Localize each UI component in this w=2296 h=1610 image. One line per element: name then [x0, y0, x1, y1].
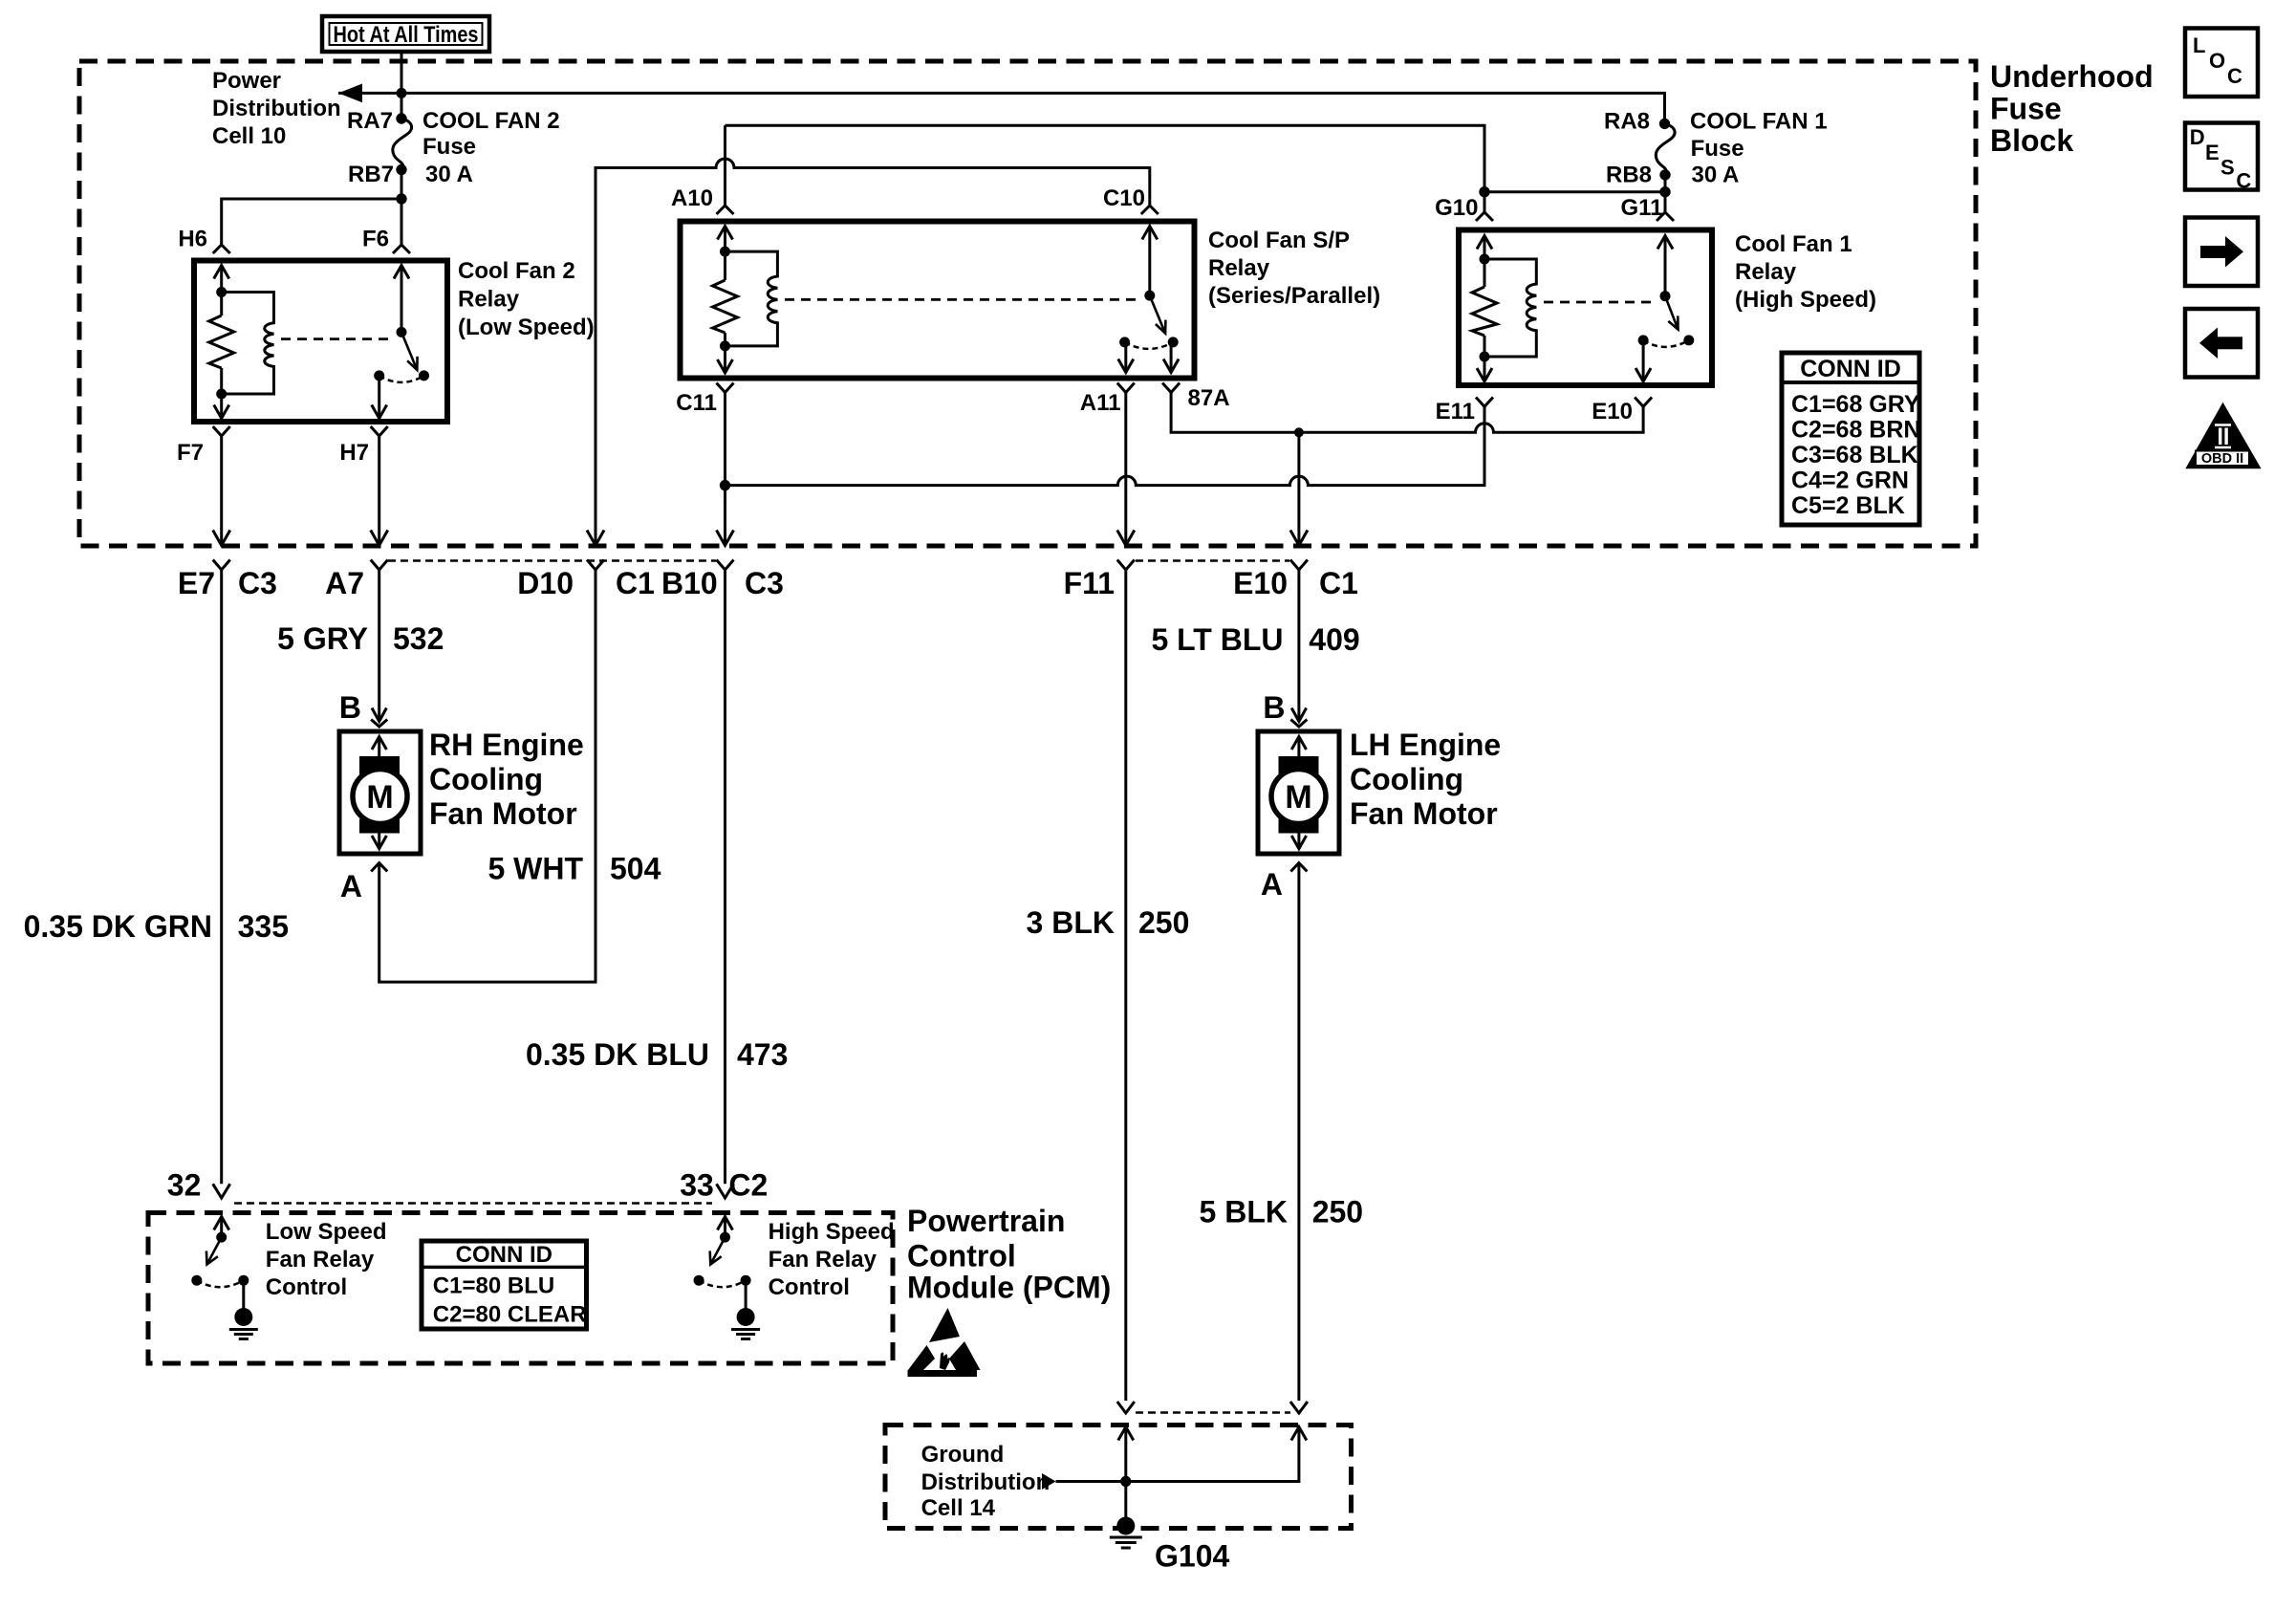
svg-text:Distribution: Distribution	[921, 1469, 1051, 1495]
switch throw arc (dashed) K3	[1125, 342, 1174, 349]
switch throw arc (dashed) K2	[379, 376, 424, 382]
svg-text:Fan Motor: Fan Motor	[1350, 796, 1498, 831]
connector chevron E10/C1 at ground cell	[1290, 1402, 1308, 1413]
svg-text:F11: F11	[1064, 566, 1115, 600]
svg-text:CONN ID: CONN ID	[1800, 356, 1901, 382]
terminal A10	[671, 185, 734, 214]
pin C1 (right)	[1319, 566, 1358, 600]
terminal A11	[1080, 383, 1135, 417]
node RB8	[1606, 163, 1671, 188]
svg-text:COOL FAN 1: COOL FAN 1	[1690, 109, 1828, 135]
CONN ID table (fuse block connectors)	[1782, 353, 1920, 525]
wire: line feeding A10 (from G10 node)	[726, 125, 1485, 192]
junction: G10 tap	[1479, 186, 1489, 197]
connector chevron F11 at ground cell	[1117, 1402, 1135, 1413]
switch contact K3 right (87A)	[1168, 337, 1179, 347]
terminal B (RH motor)	[339, 690, 387, 727]
terminal 87A	[1162, 383, 1229, 412]
wire: A10 drop	[724, 125, 726, 206]
label: 0.35 DK GRN | 335	[24, 909, 289, 944]
arrow out of relay K3 at 87A	[1163, 359, 1179, 373]
junction: LH fan feed tap	[1294, 427, 1304, 437]
node RA7	[347, 108, 407, 134]
pin E7	[178, 566, 215, 600]
svg-text:Powertrain: Powertrain	[907, 1204, 1065, 1238]
ground G104 symbol	[1110, 1517, 1230, 1574]
switch contact high speed right	[741, 1275, 751, 1286]
coil winding of K3	[726, 251, 778, 346]
svg-text:G11: G11	[1620, 195, 1662, 221]
relay K1 Cool Fan 1 Relay box	[1459, 230, 1712, 386]
svg-text:Fan Relay: Fan Relay	[266, 1247, 375, 1273]
wire: high speed contact to ground	[745, 1280, 747, 1309]
svg-text:C11: C11	[676, 390, 717, 416]
svg-text:RA7: RA7	[347, 108, 393, 134]
pin A7	[325, 566, 364, 600]
connector chevron below edge x=1358.9	[1290, 560, 1308, 571]
svg-text:532: 532	[393, 621, 444, 656]
junction: G11 tap	[1659, 186, 1670, 197]
wire: K3 right contact to 87A	[1170, 342, 1173, 373]
switch arm PCM low speed driver	[206, 1237, 222, 1264]
label: 5 WHT | 504	[487, 852, 661, 886]
svg-text:Distribution: Distribution	[212, 96, 341, 121]
coil winding of K1	[1484, 259, 1536, 357]
svg-text:M: M	[366, 779, 393, 816]
arrow out of relay K2 at H7	[372, 405, 387, 419]
wire: 87A to relay1 E10 terminal	[1171, 393, 1643, 433]
wire: K1 coil branch upper	[1484, 236, 1486, 288]
arrow into ground cell at F11 wire	[1118, 1427, 1134, 1441]
switch contact K1 right	[1683, 335, 1694, 345]
wire: A11 down through block edge	[1124, 393, 1127, 546]
terminal F6	[362, 227, 410, 254]
switch contact low speed left	[191, 1275, 202, 1286]
arrow into PCM at 33	[718, 1217, 733, 1230]
mechanical link (dashed) in K3	[785, 298, 1140, 301]
svg-text:5 GRY: 5 GRY	[277, 621, 368, 656]
ground symbol (PCM high speed)	[731, 1308, 760, 1339]
label: High Speed Fan Relay Control	[769, 1219, 895, 1300]
connector C1 dashed link (F11-E10)	[1136, 559, 1289, 562]
svg-text:C3=68 BLK: C3=68 BLK	[1791, 442, 1918, 468]
label: Low Speed Fan Relay Control	[266, 1219, 387, 1300]
svg-text:87A: 87A	[1188, 385, 1230, 411]
wire: K1 switch common	[1664, 236, 1667, 296]
svg-text:C1=80 BLU: C1=80 BLU	[433, 1273, 554, 1299]
terminal A (RH motor)	[340, 863, 387, 904]
terminal E10	[1592, 398, 1652, 425]
svg-text:RB7: RB7	[348, 162, 394, 187]
pin C3 (second)	[745, 566, 784, 600]
wire: C11 down through block edge	[724, 393, 726, 546]
switch contact low speed right	[238, 1275, 249, 1286]
switch throw arc (dashed) K1	[1643, 340, 1689, 347]
wire 250 5 BLK: LH motor A to ground cell	[1297, 863, 1300, 1402]
switch contact high speed left	[694, 1275, 704, 1286]
svg-text:Ground: Ground	[921, 1442, 1005, 1468]
connector C2 dashed link (32-33)	[234, 1202, 712, 1205]
switch throw arc (dashed) low speed	[197, 1280, 244, 1287]
wire: F7 down to fuse block edge	[220, 436, 223, 546]
switch arm in K2	[401, 332, 418, 370]
wire: D10 to C10 line with hop over A10 wire	[596, 159, 1150, 546]
connector C1 dashed link (A7-D10-B10)	[388, 559, 716, 562]
arrow at fuse block edge x=1177.8	[1117, 531, 1135, 546]
connector chevron below edge x=758.5	[717, 560, 734, 571]
svg-text:Hot At All Times: Hot At All Times	[334, 22, 479, 48]
wire: low speed contact to ground	[242, 1280, 245, 1309]
svg-text:RA8: RA8	[1604, 109, 1650, 135]
svg-text:C3: C3	[238, 566, 277, 600]
svg-text:Relay: Relay	[1735, 259, 1797, 285]
svg-text:B: B	[339, 690, 361, 725]
wire 504 5 WHT: RH motor A loop to D10	[379, 570, 596, 982]
connector chevron below edge x=231.7	[213, 560, 230, 571]
arrow at fuse block edge x=1358.9	[1290, 531, 1308, 546]
svg-text:Cooling: Cooling	[1350, 762, 1463, 796]
fuse COOL FAN 1 30A (squiggle)	[1656, 123, 1675, 174]
junction: ground tie	[1120, 1476, 1131, 1487]
svg-text:250: 250	[1312, 1195, 1363, 1229]
arrow into PCM at 32	[214, 1217, 229, 1230]
pin 32	[167, 1168, 202, 1203]
arrow out of relay K1 at E10	[1635, 368, 1651, 381]
wire: RB8 to G11	[1664, 175, 1667, 212]
wire: crossover to G10	[1484, 190, 1665, 193]
switch arm in K3	[1150, 295, 1166, 334]
wire: PCM 32 switch common	[220, 1217, 223, 1238]
svg-text:C1=68 GRY: C1=68 GRY	[1791, 391, 1920, 418]
label: COOL FAN 1 Fuse 30 A	[1690, 109, 1828, 188]
svg-text:0.35 DK GRN: 0.35 DK GRN	[24, 909, 212, 944]
svg-text:A10: A10	[671, 185, 713, 211]
svg-text:D: D	[2190, 125, 2205, 149]
svg-text:RB8: RB8	[1606, 163, 1652, 188]
svg-text:B: B	[1263, 690, 1285, 725]
svg-text:Block: Block	[1990, 123, 2073, 158]
mechanical link (dashed) in K2	[281, 337, 394, 340]
svg-text:Fuse: Fuse	[1990, 92, 2062, 126]
svg-text:Low Speed: Low Speed	[266, 1219, 387, 1245]
svg-text:F6: F6	[362, 227, 389, 252]
wire 409 5 LT BLU: E10/C1 to LH motor B	[1297, 570, 1300, 722]
junction: K1 coil bottom	[1480, 352, 1490, 362]
svg-text:RH Engine: RH Engine	[429, 728, 584, 762]
label: COOL FAN 2 Fuse 30 A	[422, 108, 560, 187]
wire: K2 coil branch lower	[220, 368, 223, 419]
svg-text:(Low Speed): (Low Speed)	[458, 315, 595, 340]
terminal C10	[1103, 185, 1159, 214]
Hot At All Times box	[322, 16, 489, 52]
ESD sensitive device symbol	[908, 1308, 981, 1377]
svg-text:High Speed: High Speed	[769, 1219, 895, 1245]
coil winding of K2	[222, 293, 274, 395]
svg-text:A11: A11	[1080, 390, 1121, 416]
arrow into relay K2 at H6	[214, 266, 229, 279]
svg-text:473: 473	[737, 1037, 788, 1072]
wire: K3 left contact to A11	[1124, 342, 1127, 373]
svg-text:30 A: 30 A	[1692, 163, 1740, 188]
svg-text:M: M	[1285, 779, 1311, 816]
terminal H6	[178, 227, 229, 254]
pin E10 (bottom)	[1233, 566, 1288, 600]
svg-text:CONN ID: CONN ID	[456, 1242, 552, 1268]
svg-text:C4=2 GRN: C4=2 GRN	[1791, 468, 1909, 494]
wire: K2 switch common	[401, 266, 403, 333]
svg-text:335: 335	[238, 909, 289, 944]
arrow out of relay K2 at F7	[214, 405, 229, 419]
svg-text:C3: C3	[745, 566, 784, 600]
pin C1	[616, 566, 655, 600]
connector chevron below edge x=396.7	[371, 560, 388, 571]
junction: K2 coil top	[216, 287, 227, 297]
svg-text:30 A: 30 A	[425, 162, 473, 187]
label: Cool Fan 2 Relay (Low Speed)	[458, 258, 595, 340]
switch contact K2 left	[374, 370, 384, 381]
label: 3 BLK | 250	[1027, 905, 1190, 940]
switch pivot in K2	[397, 327, 407, 337]
svg-text:409: 409	[1309, 622, 1359, 657]
svg-text:Relay: Relay	[458, 287, 520, 313]
arrow into ground cell at E10 wire	[1291, 1427, 1307, 1441]
wire: E11 to C11 junction (hops over A11 and E10 wires)	[726, 406, 1485, 485]
svg-text:504: 504	[610, 852, 661, 886]
label: Power Distribution Cell 10	[212, 68, 341, 149]
wire: K2 coil branch upper	[220, 266, 223, 316]
label: Cool Fan S/P Relay (Series/Parallel)	[1208, 228, 1380, 309]
resistor in K3	[713, 280, 738, 333]
terminal B (LH motor)	[1263, 690, 1307, 727]
svg-text:Fuse: Fuse	[422, 134, 476, 160]
svg-text:Cool Fan S/P: Cool Fan S/P	[1208, 228, 1350, 253]
label: Ground Distribution Cell 14	[921, 1442, 1051, 1521]
arrow at fuse block edge x=231.7	[213, 531, 230, 546]
junction: K1 coil top	[1480, 254, 1490, 265]
svg-text:Control: Control	[907, 1239, 1016, 1273]
svg-text:E10: E10	[1592, 399, 1633, 424]
resistor in K2	[209, 315, 234, 368]
svg-text:D10: D10	[517, 566, 574, 600]
wire 250 3 BLK: F11 to ground cell	[1124, 570, 1127, 1401]
svg-text:C2=68 BRN: C2=68 BRN	[1791, 417, 1920, 444]
svg-text:COOL FAN 2: COOL FAN 2	[422, 108, 560, 134]
connector chevron below edge x=1177.8	[1117, 560, 1135, 571]
relay K3 Cool Fan S/P Relay box	[681, 222, 1195, 379]
switch pivot in K3	[1144, 291, 1155, 301]
connector chevron PCM 32	[213, 1184, 230, 1198]
switch pivot PCM low speed	[216, 1232, 227, 1243]
label: LH Engine Cooling Fan Motor	[1350, 728, 1501, 831]
pin 33 / C2	[680, 1168, 768, 1203]
svg-text:Underhood: Underhood	[1990, 59, 2154, 94]
svg-text:E10: E10	[1233, 566, 1288, 600]
terminal G11	[1620, 195, 1674, 221]
switch contact K3 left (A11)	[1119, 337, 1130, 347]
wire: K3 switch common	[1148, 227, 1151, 296]
wire: E10 to ground junction	[1056, 1427, 1299, 1482]
wire 473 0.35 DK BLU: B10 to PCM 33	[724, 570, 726, 1184]
label: 5 LT BLU | 409	[1151, 622, 1359, 657]
switch contact K1 left (E10)	[1638, 335, 1649, 345]
CONN ID table (PCM connectors)	[422, 1241, 587, 1329]
wire: K2 switch output to H7	[378, 376, 380, 419]
connector chevron PCM 33	[717, 1184, 734, 1198]
svg-text:Fuse: Fuse	[1691, 136, 1744, 162]
back arrow icon	[2185, 309, 2258, 378]
svg-text:LH Engine: LH Engine	[1350, 728, 1501, 762]
terminal E11	[1436, 398, 1493, 425]
svg-text:Control: Control	[769, 1274, 850, 1300]
svg-text:(Series/Parallel): (Series/Parallel)	[1208, 283, 1380, 309]
switch pivot in K1	[1660, 291, 1671, 301]
svg-text:C: C	[2227, 64, 2242, 88]
svg-text:OBD II: OBD II	[2201, 451, 2243, 467]
switch arm PCM high speed driver	[710, 1237, 726, 1264]
resistor in K1	[1472, 287, 1497, 336]
arrow into relay K3 at A10	[718, 227, 733, 240]
svg-text:Fan Relay: Fan Relay	[769, 1247, 877, 1273]
svg-text:B10: B10	[661, 566, 718, 600]
svg-text:C: C	[2236, 168, 2251, 192]
wire: PCM 33 switch common	[724, 1217, 726, 1238]
label: Cool Fan 1 Relay (High Speed)	[1735, 231, 1876, 313]
wire: hot feed from Hot At All Times down to F6	[401, 52, 403, 245]
ground symbol (PCM low speed)	[229, 1308, 258, 1339]
wire 532 5 GRY: A7 to RH motor B	[378, 570, 380, 722]
arrowhead: to Power Distribution Cell 10	[338, 84, 362, 103]
svg-text:C1: C1	[1319, 566, 1358, 600]
svg-text:Cooling: Cooling	[429, 762, 543, 796]
switch pivot PCM high speed	[720, 1232, 730, 1243]
svg-text:C2: C2	[728, 1168, 768, 1203]
wire: H7 down to fuse block edge	[378, 436, 380, 546]
junction: C11 / E11 / PCM33 node	[720, 480, 730, 490]
svg-text:C2=80 CLEAR: C2=80 CLEAR	[433, 1302, 587, 1328]
Powertrain Control Module (PCM) dashed box	[148, 1213, 893, 1364]
junction: K2 coil bottom	[216, 389, 227, 400]
wire 335 0.35 DK GRN: E7 to PCM 32	[220, 570, 223, 1184]
svg-text:Module (PCM): Module (PCM)	[907, 1271, 1111, 1305]
svg-text:Cool Fan 2: Cool Fan 2	[458, 258, 575, 284]
motor M RH Engine Cooling Fan Motor	[339, 731, 421, 854]
label: 5 BLK | 250	[1200, 1195, 1364, 1229]
fuse COOL FAN 2 30A (squiggle)	[393, 119, 412, 169]
svg-text:C1: C1	[616, 566, 655, 600]
svg-text:Power: Power	[212, 68, 281, 94]
motor M LH Engine Cooling Fan Motor	[1258, 731, 1339, 854]
svg-text:A: A	[1261, 867, 1283, 902]
arrow into relay K1 at G11	[1657, 236, 1673, 250]
terminal G10	[1435, 195, 1493, 221]
svg-text:S: S	[2220, 156, 2235, 180]
label: 0.35 DK BLU | 473	[526, 1037, 788, 1072]
svg-text:0.35 DK BLU: 0.35 DK BLU	[526, 1037, 709, 1072]
pin C3	[238, 566, 277, 600]
DESC reference icon	[2185, 123, 2258, 193]
node RB7	[348, 162, 407, 187]
terminal A (LH motor)	[1261, 863, 1308, 903]
switch arm in K1	[1665, 296, 1679, 330]
OBD II icon	[2185, 402, 2261, 469]
svg-text:32: 32	[167, 1168, 202, 1203]
terminal H7	[339, 426, 387, 466]
arrow at fuse block edge x=623	[587, 531, 604, 546]
wire: G10 drop	[1484, 192, 1486, 212]
svg-text:3 BLK: 3 BLK	[1027, 905, 1115, 940]
svg-text:O: O	[2209, 49, 2225, 73]
svg-text:E11: E11	[1436, 399, 1475, 424]
arrow out of relay K1 at E11	[1477, 368, 1492, 381]
wire: K3 coil branch upper	[724, 227, 726, 281]
svg-text:Relay: Relay	[1208, 255, 1270, 281]
arrow at fuse block edge x=758.5	[717, 531, 734, 546]
svg-text:H7: H7	[339, 440, 369, 466]
wire: K1 coil branch lower	[1484, 336, 1486, 381]
forward arrow icon	[2185, 218, 2258, 287]
terminal C11	[676, 383, 733, 417]
svg-text:Control: Control	[266, 1274, 347, 1300]
ground distribution reference arrow	[1042, 1473, 1056, 1490]
arrow out of relay K3 at C11	[718, 359, 733, 373]
label: Powertrain Control Module (PCM)	[907, 1204, 1111, 1305]
junction: RB7 output to H6/F6	[396, 193, 406, 204]
arrow out of relay K3 at A11	[1118, 359, 1134, 373]
connector chevron below edge x=623	[587, 560, 604, 571]
label: Underhood Fuse Block	[1990, 59, 2154, 158]
label: 5 GRY | 532	[277, 621, 444, 656]
relay K2 Cool Fan 2 Relay box	[194, 261, 447, 423]
arrow at fuse block edge x=396.7	[371, 531, 388, 546]
svg-text:H6: H6	[178, 227, 207, 252]
svg-text:5 LT BLU: 5 LT BLU	[1151, 622, 1283, 657]
svg-text:E7: E7	[178, 566, 215, 600]
svg-text:Fan Motor: Fan Motor	[429, 796, 577, 831]
svg-text:Cool Fan 1: Cool Fan 1	[1735, 231, 1852, 257]
svg-text:F7: F7	[177, 440, 204, 466]
wire: LH fan feed drop (E10/C1)	[1297, 432, 1300, 545]
svg-text:L: L	[2193, 33, 2205, 57]
junction: K3 coil bottom	[720, 340, 730, 351]
wire: K1 switch output to E10	[1642, 340, 1645, 381]
svg-text:Cell 14: Cell 14	[921, 1495, 996, 1521]
wire: power distribution arrow line to RA8	[338, 93, 1665, 123]
junction: K3 coil top	[720, 247, 730, 257]
arrow into relay K3 at C10	[1142, 227, 1158, 240]
switch throw arc (dashed) high speed	[699, 1280, 746, 1287]
svg-text:(High Speed): (High Speed)	[1735, 287, 1876, 313]
pin F11	[1064, 566, 1115, 600]
arrow into relay K1 at G10	[1477, 236, 1492, 250]
svg-text:250: 250	[1138, 905, 1189, 940]
wire: K3 coil branch lower	[724, 333, 726, 373]
pin B10	[661, 566, 718, 600]
terminal F7	[177, 426, 230, 466]
svg-text:5 WHT: 5 WHT	[487, 852, 583, 886]
svg-text:C5=2 BLK: C5=2 BLK	[1791, 492, 1905, 519]
svg-text:E: E	[2205, 141, 2220, 164]
svg-text:33: 33	[680, 1168, 714, 1203]
junction: hot feed / arrow line	[397, 88, 407, 98]
switch contact K2 right	[419, 370, 429, 381]
pin D10	[517, 566, 574, 600]
svg-text:Cell 10: Cell 10	[212, 123, 286, 149]
arrow into relay K2 at F6	[394, 266, 409, 279]
node RA8	[1604, 109, 1670, 135]
svg-text:G104: G104	[1155, 1539, 1229, 1574]
Ground Distribution Cell 14 dashed box	[885, 1425, 1352, 1529]
svg-text:G10: G10	[1435, 195, 1478, 221]
